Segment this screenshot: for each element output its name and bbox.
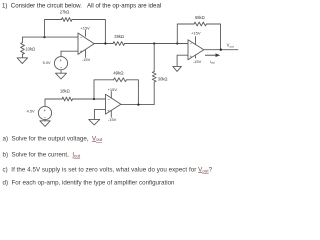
ground G1 xyxy=(17,58,28,64)
wire: V2 to R5 xyxy=(45,99,62,106)
resistor R3 39k xyxy=(113,42,125,46)
current arrow Iout xyxy=(205,54,216,56)
node C (U2 inverting node) xyxy=(93,98,95,100)
svg-text:+: + xyxy=(59,58,62,63)
svg-text:+15V: +15V xyxy=(191,30,201,35)
resistor R4 30k xyxy=(153,44,155,72)
svg-text:b) Solve for the current, Io: b) Solve for the current, Iout xyxy=(3,152,81,159)
ground G4 xyxy=(89,119,100,125)
resistor R7 68k xyxy=(194,22,206,26)
svg-text:−: − xyxy=(44,115,47,120)
svg-text:68kΩ: 68kΩ xyxy=(195,15,205,20)
svg-text:1) Consider the circuit below: 1) Consider the circuit below. All of th… xyxy=(2,3,161,10)
op-amp U1 xyxy=(78,30,94,57)
svg-text:a) Solve for the output volta: a) Solve for the output voltage, Vout xyxy=(3,135,103,142)
svg-text:c) If the 4.5V supply is set: c) If the 4.5V supply is set to zero vol… xyxy=(3,166,213,173)
svg-text:−: − xyxy=(190,41,193,46)
wire: U3 output xyxy=(204,49,238,51)
source V1 5.0V xyxy=(54,57,67,70)
svg-text:Iout: Iout xyxy=(210,59,215,65)
wire: feedback left/top xyxy=(45,20,62,38)
resistor R6 49k xyxy=(114,78,127,82)
svg-text:-15V: -15V xyxy=(193,59,202,64)
node: U3 feedback tap xyxy=(176,42,178,44)
wire: U3 non-inverting to ground xyxy=(177,55,188,66)
svg-text:27kΩ: 27kΩ xyxy=(60,10,70,15)
node Vout xyxy=(220,49,222,51)
node B (summing node) xyxy=(153,42,155,44)
wire: U2 feedback left/top xyxy=(94,80,114,99)
node: U2 feedback junction xyxy=(137,103,139,105)
wire: U3 feedback right xyxy=(207,24,221,50)
wire: U2 feedback right xyxy=(127,80,139,105)
wire: feedback right xyxy=(72,20,105,44)
source V2 4.5V xyxy=(38,106,51,119)
resistor R5 18k xyxy=(62,97,73,101)
svg-text:+: + xyxy=(190,54,193,59)
svg-text:−: − xyxy=(60,65,63,70)
svg-text:−: − xyxy=(80,35,83,40)
resistor R1 10k xyxy=(22,37,24,42)
svg-text:-15V: -15V xyxy=(108,117,117,122)
wire: U1 non-inverting input xyxy=(61,50,78,52)
op-amp U3 xyxy=(188,37,204,60)
wire: U1 output run xyxy=(94,43,113,45)
svg-text:10kΩ: 10kΩ xyxy=(25,47,35,52)
node: U1 output xyxy=(104,42,106,44)
svg-text:4.5V: 4.5V xyxy=(27,109,35,114)
svg-text:18kΩ: 18kΩ xyxy=(60,89,70,94)
svg-text:Vout: Vout xyxy=(227,43,234,49)
wire: U3 feedback left/top xyxy=(177,24,194,44)
ground G3 xyxy=(173,66,182,71)
wire: U2 output xyxy=(121,104,154,106)
svg-text:+: + xyxy=(80,49,83,54)
svg-text:30kΩ: 30kΩ xyxy=(158,76,168,81)
svg-text:39kΩ: 39kΩ xyxy=(114,34,124,39)
svg-text:−: − xyxy=(107,97,110,102)
resistor R2 27k xyxy=(62,18,73,22)
wire: U2 non-inverting to ground xyxy=(94,109,105,119)
ground G5 xyxy=(44,120,46,121)
svg-text:5.0V: 5.0V xyxy=(43,60,51,65)
svg-text:49kΩ: 49kΩ xyxy=(113,71,124,76)
wire: U1 inverting input xyxy=(23,36,79,38)
svg-text:+15V: +15V xyxy=(108,87,118,92)
ground G2 xyxy=(60,70,62,73)
op-amp U2 xyxy=(106,92,121,118)
node A (U1 inverting node) xyxy=(43,36,45,38)
svg-text:d) For each op-amp, identify: d) For each op-amp, identify the type of… xyxy=(3,180,176,187)
svg-text:+15V: +15V xyxy=(80,25,90,30)
svg-text:+: + xyxy=(43,108,46,113)
svg-text:-15V: -15V xyxy=(82,57,91,62)
svg-text:+: + xyxy=(107,108,110,113)
